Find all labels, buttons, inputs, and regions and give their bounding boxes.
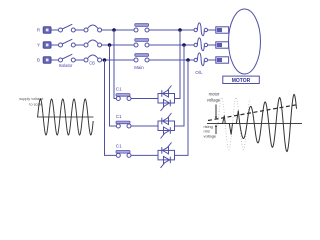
wire C1-2 to thyristor pair 2	[131, 125, 158, 127]
wire R tap down to C1 branch 1	[114, 30, 116, 99]
wire Main to O/L R	[149, 29, 194, 31]
svg-text:Isolator: Isolator	[59, 63, 73, 68]
overload heater O/L B	[194, 53, 204, 66]
thyristor pair 3 (anti-parallel SCRs)	[158, 142, 175, 168]
dotted full sine reference	[218, 98, 250, 150]
wire isolator to CB R	[75, 29, 84, 31]
svg-text:C1: C1	[116, 86, 122, 91]
rising rms dashed envelope	[208, 105, 298, 121]
wire O/L to terminal Y with contact circle	[204, 43, 216, 46]
motor waveform axis	[207, 123, 302, 125]
wire fuse to isolator R	[51, 29, 58, 31]
contactor C1 contact 2	[116, 121, 131, 128]
contactor Main R	[134, 24, 149, 32]
motor nameplate box	[223, 76, 259, 83]
svg-text:MOTOR: MOTOR	[232, 78, 251, 84]
isolator switch B	[59, 54, 76, 62]
fuse F3 (B phase)	[43, 57, 51, 64]
wire O/L to terminal R with contact circle	[204, 28, 216, 31]
motor body ellipse	[229, 9, 261, 74]
svg-text:R: R	[37, 28, 40, 33]
wire Main to O/L Y	[149, 44, 194, 46]
wire isolator to CB Y	[75, 44, 84, 46]
supply waveform axis	[37, 116, 94, 118]
isolator switch R	[59, 24, 76, 32]
contactor C1 contact 1	[116, 94, 131, 101]
node R bypass	[178, 28, 182, 32]
wire R bypass down to thyristor pair 1	[175, 30, 181, 99]
wire O/L to terminal B with contact circle	[204, 58, 216, 61]
svg-text:C1: C1	[116, 114, 122, 119]
motor terminal box R	[216, 27, 229, 33]
svg-text:B: B	[37, 58, 40, 63]
wire Main to O/L B	[149, 59, 194, 61]
node R tap	[112, 28, 116, 32]
wire CB to Main B	[102, 59, 134, 61]
svg-text:voltage: voltage	[204, 133, 217, 138]
thyristor pair 2 (anti-parallel SCRs)	[158, 113, 175, 139]
contactor Main Y	[134, 39, 149, 47]
svg-text:C1: C1	[116, 143, 122, 148]
wire CB to Main R	[102, 29, 134, 31]
wire B bypass down to thyristor pair 3	[175, 60, 189, 155]
svg-text:to scale: to scale	[29, 103, 42, 107]
wire fuse to isolator B	[51, 59, 58, 61]
wire Y bypass down to thyristor pair 2	[175, 45, 185, 126]
svg-text:CB: CB	[89, 61, 95, 66]
thyristor pair 1 (anti-parallel SCRs)	[158, 86, 175, 112]
motor terminal box Y	[216, 42, 229, 48]
motor voltage growing sine	[217, 95, 297, 152]
wire C1-3 to thyristor pair 3	[131, 154, 158, 156]
overload heater O/L Y	[194, 38, 204, 51]
node Y bypass	[182, 43, 186, 47]
wire Y tap down to C1 branch 2	[110, 45, 117, 126]
svg-text:voltage: voltage	[207, 98, 221, 103]
wire C1-1 to thyristor pair 1	[131, 98, 158, 100]
svg-text:O/L: O/L	[195, 70, 203, 75]
motor terminal box B	[216, 57, 229, 63]
wire fuse to isolator Y	[51, 44, 58, 46]
contactor Main B	[134, 54, 149, 62]
overload heater O/L R	[194, 23, 204, 36]
supply sine wave	[38, 99, 94, 135]
isolator switch Y	[59, 39, 76, 47]
arrow motor voltage down to envelope	[215, 105, 217, 120]
circuit breaker CB B	[84, 55, 102, 62]
node B bypass	[186, 58, 190, 62]
wire B tap down to C1 branch 3	[105, 60, 117, 155]
node Y tap	[108, 43, 112, 47]
svg-text:Y: Y	[37, 43, 40, 48]
node B tap	[103, 58, 107, 62]
wire CB to Main Y	[102, 44, 134, 46]
arrow rms voltage up to axis	[215, 124, 217, 134]
svg-text:Main: Main	[134, 65, 144, 70]
fuse F2 (Y phase)	[43, 42, 51, 49]
wire isolator to CB B	[75, 59, 84, 61]
contactor C1 contact 3	[116, 151, 131, 158]
svg-text:motor: motor	[209, 92, 220, 97]
circuit breaker CB R	[84, 25, 102, 32]
fuse F1 (R phase)	[43, 27, 51, 34]
circuit breaker CB Y	[84, 40, 102, 47]
